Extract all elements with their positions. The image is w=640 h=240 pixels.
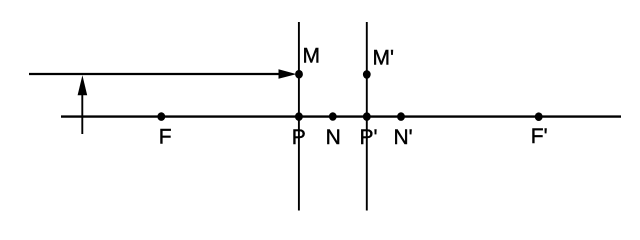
svg-text:F': F'	[531, 125, 548, 148]
node P	[295, 112, 303, 121]
wire incident ray (horizontal, arrow to M)	[29, 69, 297, 79]
node M'	[363, 70, 371, 79]
node P'	[363, 112, 371, 121]
svg-text:P: P	[292, 126, 306, 149]
svg-text:F: F	[159, 125, 172, 148]
svg-text:M': M'	[373, 46, 395, 69]
node N'	[397, 112, 405, 121]
node F	[157, 112, 165, 121]
wire optical axis	[61, 115, 621, 117]
node M	[295, 70, 303, 79]
node N	[329, 112, 337, 121]
wire principal plane P' (vertical)	[366, 22, 368, 211]
svg-text:N': N'	[394, 126, 413, 149]
svg-text:N: N	[326, 126, 341, 149]
object arrow on axis	[78, 75, 88, 134]
svg-text:M: M	[303, 45, 321, 68]
svg-text:P': P'	[360, 126, 378, 149]
wire principal plane P (vertical)	[298, 22, 300, 211]
node F'	[535, 112, 543, 121]
